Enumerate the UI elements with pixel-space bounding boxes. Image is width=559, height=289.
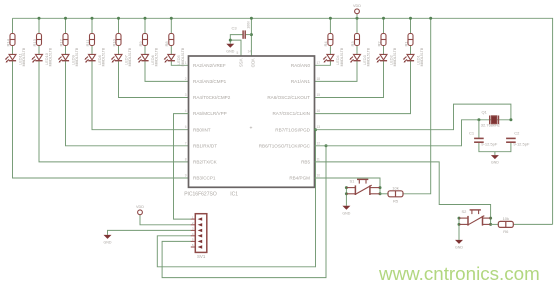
resistor R3	[355, 34, 360, 46]
svg-text:10k: 10k	[503, 216, 509, 221]
wire column R11/LED8 net	[92, 18, 189, 129]
svg-text:R1: R1	[403, 41, 408, 47]
junction	[144, 17, 147, 20]
svg-text:11: 11	[317, 157, 321, 161]
junction	[250, 17, 253, 20]
svg-text:RA7/OSC1/CLKIN: RA7/OSC1/CLKIN	[272, 111, 310, 116]
junction	[489, 217, 492, 220]
svg-text:RB4/PGM: RB4/PGM	[289, 176, 310, 181]
wire S1 left to GND	[345, 188, 347, 206]
wire VSS to IC	[230, 40, 241, 56]
junction	[345, 186, 348, 189]
junction	[91, 17, 94, 20]
wire RB5 net	[315, 162, 491, 225]
wire column R8/LED5 net	[171, 18, 188, 65]
svg-text:6: 6	[185, 125, 187, 129]
LED LED11	[5, 54, 16, 62]
switch S1	[346, 179, 380, 195]
svg-text:R13: R13	[32, 38, 37, 46]
wire C3 left lead to GND net	[230, 35, 242, 44]
wire PGC net (SV1 pin5 to RB6)	[162, 146, 326, 278]
svg-text:10: 10	[317, 174, 321, 178]
svg-text:R3: R3	[350, 41, 355, 47]
ground	[104, 235, 112, 239]
LED LED6	[137, 54, 148, 62]
svg-text:C2: C2	[514, 130, 520, 135]
svg-text:S1: S1	[350, 178, 356, 183]
wire VDD to SV1	[140, 215, 191, 225]
LED LED5	[164, 54, 175, 62]
wire column R12/LED9 net	[66, 18, 189, 146]
junction	[170, 17, 173, 20]
svg-text:Q1: Q1	[482, 110, 488, 115]
svg-text:RB2/TX/CK: RB2/TX/CK	[193, 160, 218, 165]
wire R6 to VDD	[512, 223, 553, 225]
LED LED1	[403, 54, 414, 62]
svg-text:R14: R14	[5, 38, 10, 46]
svg-text:5: 5	[237, 51, 239, 55]
svg-text:VDD: VDD	[136, 205, 144, 209]
svg-text:GND: GND	[226, 49, 234, 53]
svg-text:MMDL51TB: MMDL51TB	[22, 47, 26, 66]
svg-text:RB5: RB5	[301, 160, 310, 165]
LED LED2	[376, 54, 387, 62]
svg-text:7: 7	[185, 141, 187, 145]
svg-text:RA5/MCLR/VPP: RA5/MCLR/VPP	[193, 111, 227, 116]
junction	[229, 39, 232, 42]
svg-text:GND: GND	[104, 241, 112, 245]
svg-text:17: 17	[317, 61, 321, 65]
svg-text:R6: R6	[503, 229, 509, 234]
wire VDD bus	[13, 18, 553, 224]
svg-text:MMDL51TB: MMDL51TB	[155, 47, 159, 66]
junction	[356, 17, 359, 20]
wire column R10/LED7 net	[119, 18, 189, 97]
svg-text:10k: 10k	[392, 185, 398, 190]
wire column R9/LED6 net	[145, 18, 189, 81]
wire S1 to R5	[380, 193, 388, 195]
junction	[64, 17, 67, 20]
resistor R2	[381, 34, 386, 46]
svg-text:GND: GND	[342, 211, 350, 215]
wire RB7/T1OSI net	[315, 104, 511, 130]
junction	[429, 17, 432, 20]
ground	[455, 240, 463, 244]
resistor R1	[408, 34, 413, 46]
svg-text:R5: R5	[393, 198, 399, 203]
resistor R4	[328, 34, 333, 46]
svg-text:MMDL51TB: MMDL51TB	[75, 47, 79, 66]
wire column R13/LED10 net	[39, 18, 189, 162]
svg-text:VDD: VDD	[353, 4, 361, 8]
connector SV1	[195, 214, 207, 253]
svg-text:R4: R4	[323, 41, 328, 47]
svg-text:MMDL51TB: MMDL51TB	[340, 47, 344, 66]
wire column R3/LED3 net	[315, 18, 358, 81]
svg-text:32.768kHz: 32.768kHz	[481, 122, 500, 127]
LED LED3	[349, 54, 360, 62]
svg-text:VDD: VDD	[250, 59, 255, 68]
op-amp U1 body (microcontroller IC1 box)	[189, 56, 315, 187]
ground	[491, 155, 499, 159]
wire column R1/LED1 net	[315, 18, 411, 113]
svg-text:PIC16F627SO: PIC16F627SO	[184, 191, 217, 197]
supply VDD	[355, 9, 360, 14]
resistor R8	[169, 34, 174, 46]
svg-text:RA2/AN2/VREF: RA2/AN2/VREF	[193, 63, 226, 68]
svg-text:RB3/CCP1: RB3/CCP1	[193, 176, 216, 181]
wire VDD to IC	[250, 18, 252, 56]
svg-text:RB1/RX/DT: RB1/RX/DT	[193, 143, 217, 148]
svg-text:MMDL51TB: MMDL51TB	[420, 47, 424, 66]
junction	[379, 186, 382, 189]
svg-text:9: 9	[185, 174, 187, 178]
junction node XT1	[477, 118, 480, 121]
capacitor C3	[243, 30, 245, 38]
wire GND to SV1	[108, 230, 192, 235]
LED LED8	[84, 54, 95, 62]
svg-text:MMDL51TB: MMDL51TB	[128, 47, 132, 66]
svg-text:18: 18	[317, 77, 321, 81]
junction	[458, 223, 461, 226]
svg-text:IC1: IC1	[230, 191, 238, 197]
wire C3 right lead	[246, 34, 252, 36]
resistor R9	[143, 34, 148, 46]
junction	[38, 17, 41, 20]
wire PGD net (SV1 pin4 to RB7)	[157, 130, 315, 267]
svg-text:R8: R8	[164, 41, 169, 47]
wire C1 bottom to GND row	[479, 143, 511, 152]
resistor R14	[10, 34, 15, 46]
junction	[250, 33, 253, 36]
resistor R6	[498, 221, 513, 227]
resistor R12	[63, 34, 68, 46]
wire VDD stub	[356, 14, 358, 19]
svg-text:R10: R10	[111, 38, 116, 46]
IC1 pin labels	[193, 59, 311, 181]
junction	[382, 17, 385, 20]
wire column R4/LED4 net	[315, 18, 331, 65]
svg-text:9-12.5pF: 9-12.5pF	[481, 141, 498, 146]
svg-text:R9: R9	[138, 41, 143, 47]
junction	[409, 17, 412, 20]
LED LED9	[58, 54, 69, 62]
LED LED10	[31, 54, 42, 62]
svg-text:3: 3	[185, 93, 187, 97]
wire RB6/T1OSO net	[315, 120, 479, 146]
junction	[329, 17, 332, 20]
svg-text:RB6/T1OSO/T1CKI/PGC: RB6/T1OSO/T1CKI/PGC	[259, 143, 311, 148]
resistor R13	[37, 34, 42, 46]
junction	[314, 128, 317, 131]
svg-text:RA3/AN3/CMP1: RA3/AN3/CMP1	[193, 79, 227, 84]
svg-text:+: +	[250, 126, 253, 132]
svg-text:S2: S2	[462, 209, 468, 214]
svg-text:MMDL51TB: MMDL51TB	[102, 47, 106, 66]
svg-text:C3: C3	[232, 25, 238, 30]
wire S2 left to GND	[458, 218, 460, 240]
svg-text:2: 2	[185, 77, 187, 81]
junction	[458, 217, 461, 220]
svg-text:RA6/OSC2/CLKOUT: RA6/OSC2/CLKOUT	[267, 95, 310, 100]
svg-text:14: 14	[248, 50, 252, 54]
switch S2	[459, 210, 491, 226]
svg-text:16: 16	[317, 109, 321, 113]
ground	[342, 206, 350, 210]
junction	[345, 192, 348, 195]
wire S2 to R6	[491, 223, 500, 225]
wire R5 to VDD	[403, 18, 431, 194]
LED LED7	[111, 54, 122, 62]
junction	[489, 223, 492, 226]
svg-text:www.cntronics.com: www.cntronics.com	[378, 263, 540, 284]
junction	[379, 192, 382, 195]
svg-text:R12: R12	[58, 38, 63, 46]
LED LED4	[323, 54, 334, 62]
svg-text:GND: GND	[455, 246, 463, 250]
wire column R14/LED11 net	[13, 18, 189, 178]
supply VDD	[138, 210, 143, 215]
svg-text:RB0/INT: RB0/INT	[193, 127, 211, 132]
wire column R2/LED2 net	[315, 18, 384, 97]
ground	[226, 44, 234, 48]
svg-text:MMDL51TB: MMDL51TB	[367, 47, 371, 66]
wire C1 top lead	[478, 120, 480, 138]
svg-text:RB7/T1OSI/PGD: RB7/T1OSI/PGD	[275, 127, 310, 132]
wire crystal GND stub	[494, 152, 496, 155]
crystal Q1	[490, 116, 499, 125]
svg-text:15: 15	[317, 93, 321, 97]
wire crystal row	[479, 119, 511, 121]
svg-text:SV1: SV1	[197, 254, 206, 259]
resistor R5	[388, 191, 403, 197]
svg-text:R2: R2	[376, 41, 381, 47]
svg-text:9-12.5pF: 9-12.5pF	[513, 141, 530, 146]
svg-text:MMDL51TB: MMDL51TB	[393, 47, 397, 66]
wire MCLR net	[174, 114, 192, 220]
wire RB4 to S1	[315, 178, 381, 194]
capacitor C1	[474, 138, 484, 142]
svg-text:RA1/AN1: RA1/AN1	[291, 79, 311, 84]
svg-text:RA0/AN0: RA0/AN0	[291, 63, 311, 68]
svg-text:RA4/T0CKI/CMP2: RA4/T0CKI/CMP2	[193, 95, 231, 100]
junction	[117, 17, 120, 20]
svg-text:4: 4	[185, 109, 187, 113]
svg-text:13: 13	[317, 125, 321, 129]
svg-text:VSS: VSS	[239, 59, 244, 68]
svg-text:100n: 100n	[247, 21, 251, 29]
resistor R11	[90, 34, 95, 46]
svg-text:MMDL51TB: MMDL51TB	[49, 47, 53, 66]
svg-text:C1: C1	[469, 130, 475, 135]
svg-text:8: 8	[185, 157, 187, 161]
svg-text:1: 1	[185, 61, 187, 65]
junction node XT2	[509, 118, 512, 121]
junction	[325, 144, 328, 147]
capacitor C2	[506, 138, 516, 142]
svg-text:R11: R11	[85, 39, 90, 47]
resistor R10	[116, 34, 121, 46]
svg-text:12: 12	[317, 141, 321, 145]
svg-text:GND: GND	[491, 161, 499, 165]
